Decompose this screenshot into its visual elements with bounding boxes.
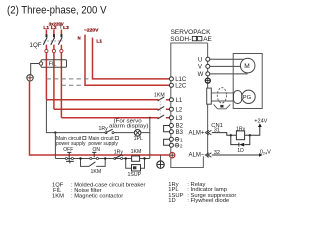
svg-text:+24V: +24V: [254, 119, 267, 125]
svg-text:1Ry: 1Ry: [114, 149, 124, 155]
svg-text:1KM: 1KM: [52, 194, 64, 200]
+24V arrowhead: [258, 123, 262, 127]
contactor coil 1KM: [132, 156, 140, 161]
surge suppressor 1SUP branch: [126, 159, 145, 169]
terminal L1: [169, 98, 173, 102]
ladder right rail (taps phase T row): [149, 118, 151, 159]
contactor 1KM aux contact branch: [81, 159, 106, 167]
terminal U: [206, 57, 210, 61]
wire phase T drop to breaker: [60, 30, 62, 35]
noise filter FIL box: [41, 60, 67, 68]
wire phase T to L3 terminal: [61, 117, 169, 119]
svg-text:AE: AE: [203, 36, 212, 43]
motor enclosure box: [233, 54, 262, 109]
wire phase T below breaker: [60, 45, 62, 118]
ground electrode symbol below red wire: [160, 155, 162, 161]
svg-text:V: V: [198, 65, 202, 71]
svg-text:L1: L1: [43, 25, 49, 30]
svg-text:L3: L3: [176, 116, 183, 122]
wire phase S to L2 terminal: [54, 108, 169, 110]
encoder cable wires: [211, 93, 234, 101]
relay 1Ry coil: [236, 131, 244, 140]
flywheel diode 1D branch: [231, 135, 250, 144]
terminal circle phase R at filter input: [45, 49, 48, 52]
indicator lamp 1PL: [134, 130, 141, 137]
svg-text:2: 2: [180, 143, 183, 149]
svg-text:B2: B2: [176, 124, 184, 130]
wire phase S drop to breaker: [53, 30, 55, 35]
svg-text:1: 1: [180, 138, 183, 144]
jumper B2-B3: [164, 126, 170, 132]
svg-text:L1C: L1C: [175, 77, 187, 83]
svg-text:B3: B3: [176, 130, 184, 136]
svg-text:(2) Three-phase, 200 V: (2) Three-phase, 200 V: [7, 5, 107, 17]
svg-text:1Ry: 1Ry: [236, 126, 246, 132]
tick mark near L3 label: [59, 25, 62, 28]
svg-text:L1: L1: [96, 39, 102, 44]
ladder left rail from phase R: [46, 100, 55, 133]
svg-text:1SUP: 1SUP: [128, 172, 142, 178]
svg-text:1PL: 1PL: [134, 136, 143, 142]
svg-text:L2: L2: [176, 107, 183, 113]
motor M circle: [240, 58, 255, 73]
svg-text:PG: PG: [243, 95, 252, 101]
svg-text:: Magnetic contactor: : Magnetic contactor: [71, 194, 123, 200]
terminal circle phase S at filter input: [52, 49, 55, 52]
cable clamp trapezoid: [214, 104, 231, 108]
svg-text:SERVOPACK: SERVOPACK: [171, 29, 212, 36]
servopack U1 body: [171, 43, 208, 168]
terminal L2: [169, 107, 173, 111]
contactor 1KM main contact L3: [158, 115, 165, 119]
terminal minus1: [169, 137, 173, 141]
pin 31 chevrons: [205, 130, 211, 135]
contactor 1KM main contact L2: [158, 106, 165, 110]
svg-text:1KM: 1KM: [91, 169, 102, 175]
contactor 1KM main contact L1: [158, 97, 165, 101]
wire N drop: [85, 35, 170, 86]
wire L1 (single phase) drop: [93, 38, 171, 79]
wire ALM+ to relay: [212, 127, 260, 136]
wire encoder plug to PG: [241, 96, 244, 98]
terminal L2C: [169, 83, 173, 87]
wire U to motor: [210, 58, 244, 60]
terminal B2 with jumper: [169, 124, 173, 128]
encoder PG circle: [242, 90, 255, 103]
encoder cable shield (dashed ellipse): [217, 88, 226, 103]
svg-text:FIL: FIL: [49, 62, 57, 68]
terminal earth (red circled plus): [170, 153, 175, 158]
terminal circle phase T at filter input: [60, 49, 63, 52]
svg-text:N: N: [78, 36, 81, 41]
wire phase R to L1 terminal: [46, 99, 169, 101]
wire phase S below breaker: [53, 45, 55, 110]
svg-text:SGDH-: SGDH-: [170, 36, 191, 43]
svg-text:1KM: 1KM: [131, 149, 142, 155]
svg-text:L3: L3: [63, 25, 69, 30]
ladder top rung wire: [55, 132, 149, 134]
contactor 1KM linkage dashes: [159, 98, 161, 117]
wire phase R below breaker: [45, 45, 47, 100]
breaker 1QF pole 1 terminal: [46, 34, 48, 37]
ladder drop to main rung: [54, 133, 56, 159]
breaker 1QF pole 3 terminal: [61, 34, 63, 37]
pushbutton OFF (NC): [65, 158, 67, 160]
cable clamp mark: [220, 105, 223, 108]
connector CN2 plug on servopack: [207, 88, 212, 104]
wire ground (red) from PE to servopack earth terminal: [30, 81, 171, 155]
svg-text:: Flywheel diode: : Flywheel diode: [187, 198, 229, 204]
svg-text:ALM−: ALM−: [189, 153, 205, 159]
wire W to motor: [210, 72, 247, 74]
main rung wire: [55, 158, 149, 160]
terminal B3: [169, 130, 173, 134]
svg-text:1D: 1D: [237, 148, 244, 154]
pushbutton ON (NO): [90, 158, 92, 160]
terminal L3: [169, 116, 173, 120]
breaker 1QF pole 2 terminal: [53, 34, 55, 37]
svg-text:1QF: 1QF: [30, 42, 42, 49]
wire optional dashed feed to L2C: [61, 84, 83, 86]
junction node right of coil: [249, 134, 251, 136]
relay contact 1Ry (alarm): [105, 132, 107, 134]
junction node ladder: [54, 131, 56, 133]
ground terminal PE circle: [27, 75, 33, 81]
wire optional dashed feed to L1C: [46, 78, 90, 80]
svg-text:ALM+: ALM+: [189, 131, 205, 137]
FIL ground terminal circle: [39, 62, 42, 65]
svg-text:alarm display): alarm display): [109, 124, 149, 130]
svg-text:L2C: L2C: [175, 83, 187, 89]
jumper minus1-minus2: [164, 139, 170, 145]
terminal V: [206, 64, 210, 68]
terminal earth right (circled plus): [205, 78, 210, 83]
wire phase R drop to breaker: [45, 30, 47, 35]
svg-text:L2: L2: [51, 25, 57, 30]
junction node left of coil: [230, 134, 232, 136]
svg-text:L1: L1: [176, 98, 183, 104]
relay contact 1Ry (NC in rung): [114, 158, 116, 160]
terminal W: [206, 72, 210, 76]
encoder plug (oval): [234, 91, 242, 104]
terminal L1C: [169, 77, 173, 81]
svg-text:U: U: [198, 58, 202, 64]
breaker 1QF linkage (dash-dot): [44, 40, 63, 42]
wire V to motor: [210, 65, 241, 67]
svg-text:W: W: [198, 72, 204, 78]
svg-text:~220V: ~220V: [84, 28, 99, 33]
wire FIL ground lead: [31, 64, 40, 75]
wire ALM- to 0V: [212, 154, 259, 156]
pin 32 chevrons: [205, 153, 211, 158]
svg-text:1Ry: 1Ry: [99, 126, 109, 132]
terminal minus2: [169, 143, 173, 147]
svg-text:1D: 1D: [168, 198, 175, 204]
svg-text:1KM: 1KM: [154, 92, 165, 98]
svg-text:M: M: [244, 63, 250, 70]
